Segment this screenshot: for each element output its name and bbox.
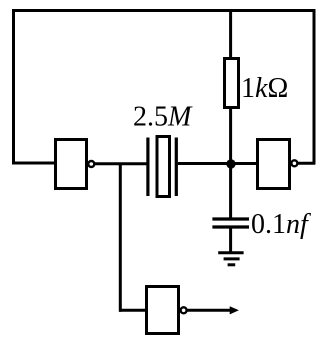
wire R1 to node [229,107,232,165]
svg-text:0.1nf: 0.1nf [251,209,311,240]
inverter U2 [258,140,298,189]
wire node to C1 [229,163,232,219]
wire top rail [12,9,316,12]
inverter U1 [56,140,95,189]
svg-text:2.5M: 2.5M [133,102,193,133]
wire output arrow [187,306,239,314]
wire U1 input [12,162,55,165]
wire U3 input [119,309,146,312]
crystal X1 [148,137,176,197]
wire left feedback [12,9,15,165]
ground [218,253,243,265]
wire crystal to U2 input [178,162,257,165]
inverter U3 [147,287,187,334]
wire C1 to ground [229,228,232,253]
wire top rail to R1 [229,9,232,59]
wire U1 output to crystal [94,162,147,165]
wire right feedback [313,9,316,165]
svg-text:1kΩ: 1kΩ [241,73,288,104]
capacitor C1 [212,219,249,227]
wire branch down to U3 [119,163,122,312]
wire U2 output to right feedback [298,162,316,165]
node junction dot [226,159,235,168]
resistor R1 [225,59,239,108]
